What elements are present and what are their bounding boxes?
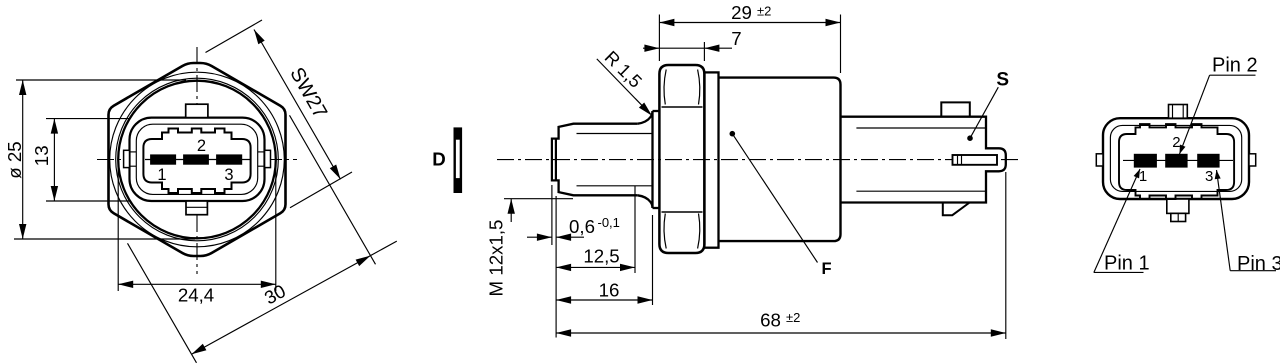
right view pin 3 contact xyxy=(1197,154,1219,168)
svg-text:Pin 3: Pin 3 xyxy=(1237,253,1280,275)
svg-text:1: 1 xyxy=(157,166,166,184)
leader line for F xyxy=(732,134,817,263)
svg-text:S: S xyxy=(996,70,1009,91)
right view connector inner body xyxy=(1119,124,1234,199)
connector bottom tab xyxy=(186,201,207,215)
leader dot for S xyxy=(967,135,973,141)
leader dot for F xyxy=(730,131,736,137)
terminal pin S side view xyxy=(953,155,998,165)
svg-text:M 12x1,5: M 12x1,5 xyxy=(486,220,507,297)
pin 2 contact front view xyxy=(183,154,209,164)
right view top tab xyxy=(1169,105,1188,119)
svg-text:16: 16 xyxy=(599,280,620,301)
right view connector inner wall thin xyxy=(1110,125,1241,191)
svg-text:D: D xyxy=(432,149,446,170)
svg-text:7: 7 xyxy=(731,28,741,49)
svg-text:Pin 1: Pin 1 xyxy=(1104,253,1150,275)
dimension 30 line xyxy=(192,241,397,354)
body circle diameter 25 thick xyxy=(118,81,276,239)
dimension M 12x1,5 pointer xyxy=(504,198,573,200)
connector side tab right xyxy=(265,150,271,167)
svg-text:29: 29 xyxy=(731,2,752,23)
dimension diameter 25 extension lines xyxy=(16,79,186,81)
thread chamfer and crest outline bottom xyxy=(556,180,638,195)
dimension 68 extension line xyxy=(1005,172,1007,339)
dimension 24,4 xyxy=(118,283,276,285)
dimension SW27 line xyxy=(254,30,341,180)
dimension 0,6 outside arrows xyxy=(527,236,552,238)
connector sleeve inner lines thin xyxy=(856,127,985,129)
right view pin 2 contact xyxy=(1165,154,1187,168)
svg-text:2: 2 xyxy=(1172,134,1180,151)
right view pin rail thin xyxy=(1123,159,1233,161)
middle view horizontal centerline xyxy=(497,159,1021,161)
hex face division lines xyxy=(662,106,703,108)
dimension 16 xyxy=(556,299,652,301)
thread root lines thin xyxy=(577,133,652,135)
connector inner body with castellation xyxy=(143,129,250,194)
dimension 0,6 extension lines xyxy=(551,185,553,245)
dimension 13 xyxy=(53,119,55,201)
svg-text:ø 25: ø 25 xyxy=(4,141,25,178)
svg-text:2: 2 xyxy=(197,137,206,155)
weld collar ring xyxy=(704,72,718,247)
svg-text:1: 1 xyxy=(1139,168,1147,185)
right view connector outer shell xyxy=(1103,118,1249,199)
right view side tab left xyxy=(1096,154,1103,166)
flange washer face xyxy=(651,111,653,208)
svg-text:0,6: 0,6 xyxy=(569,216,595,237)
svg-text:F: F xyxy=(821,260,831,278)
svg-text:68: 68 xyxy=(760,310,781,331)
svg-text:±2: ±2 xyxy=(786,310,800,325)
hex chamfer arcs side view xyxy=(664,70,666,105)
left view horizontal centerline xyxy=(97,159,297,161)
svg-text:3: 3 xyxy=(1205,168,1213,185)
svg-text:Pin 2: Pin 2 xyxy=(1212,55,1258,77)
dimension 29 extension lines xyxy=(658,15,660,62)
sensor body cylinder xyxy=(719,78,841,242)
svg-text:24,4: 24,4 xyxy=(178,285,214,306)
leader line for S xyxy=(970,87,998,138)
svg-text:-0,1: -0,1 xyxy=(598,215,620,230)
dimension 7 extension line xyxy=(703,42,705,61)
dimension 16 extension line xyxy=(652,215,654,305)
label R 1,5 with leader arrow xyxy=(597,59,651,114)
thread runout fillet bottom xyxy=(638,195,653,208)
svg-text:12,5: 12,5 xyxy=(583,246,619,267)
dimension SW27 extension lines xyxy=(206,20,263,53)
connector bottom latch xyxy=(943,203,970,216)
dimension 12,5 xyxy=(556,266,635,268)
connector sleeve side view xyxy=(841,117,1006,203)
right view side tab right xyxy=(1249,154,1256,166)
pin 3 contact front view xyxy=(216,154,242,164)
connector top rib xyxy=(941,102,970,116)
pin 1 contact front view xyxy=(150,154,176,164)
connector shroud inner wall thin xyxy=(136,124,257,194)
sensor tip seal cap xyxy=(552,139,556,181)
intermediate circle thin xyxy=(116,78,279,241)
dimension 24,4 extension lines xyxy=(117,165,119,291)
hex chamfer circle thin xyxy=(110,72,285,247)
svg-text:3: 3 xyxy=(224,166,233,184)
pin row line front view xyxy=(145,159,250,161)
seal ring symbol xyxy=(454,127,463,193)
hexagon SW27 outline front view xyxy=(109,63,286,256)
connector top tab xyxy=(186,104,208,117)
dimension 29 xyxy=(659,22,840,24)
thread chamfer and crest outline top xyxy=(556,124,638,139)
dimension 13 extension lines xyxy=(46,118,130,120)
left view vertical centerline xyxy=(196,47,198,274)
dimension 68 xyxy=(556,332,1006,334)
right view pin 1 contact xyxy=(1134,154,1157,168)
right view bottom tab xyxy=(1167,199,1189,213)
connector side tab left xyxy=(124,150,130,167)
thread runout fillet R1,5 top xyxy=(638,111,653,124)
svg-text:13: 13 xyxy=(31,145,52,166)
svg-text:±2: ±2 xyxy=(757,4,771,19)
dimension 30 extension lines xyxy=(290,115,376,264)
hex side view outline xyxy=(659,65,704,253)
dimension 12,5 extension line xyxy=(634,186,636,273)
connector shroud outer wall xyxy=(130,118,265,201)
dimension 7 outside arrows xyxy=(643,47,732,49)
dimension diameter 25 xyxy=(22,80,24,239)
